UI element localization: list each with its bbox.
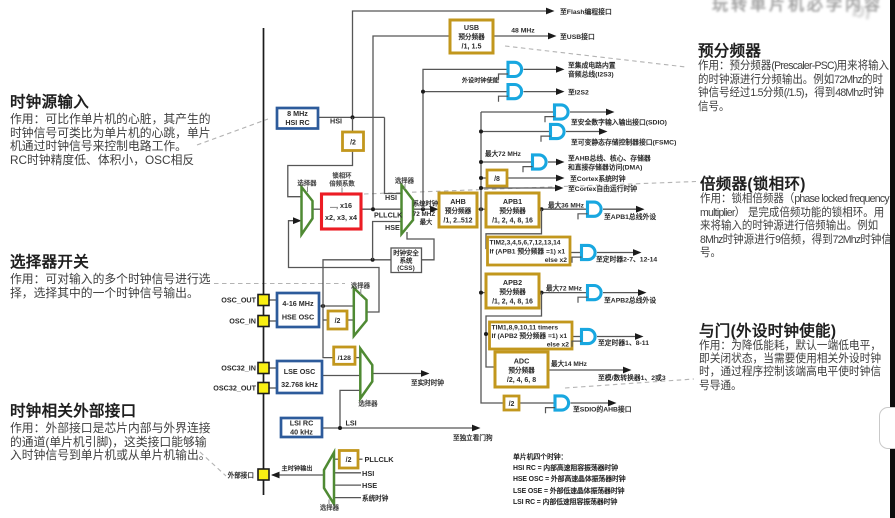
wire: system clock to AHB prescaler [413, 208, 432, 210]
wire: branch to DMA gate [481, 161, 533, 163]
wire: branch to I2S2 gate [423, 91, 508, 93]
pin OSC_OUT [258, 295, 269, 306]
wire: I2S3 gate output [524, 68, 557, 70]
svg-text:最大: 最大 [420, 217, 433, 226]
note: AND gate peripheral clock enable [699, 319, 893, 393]
AHB prescaler box [439, 193, 477, 227]
svg-text:至I2S2: 至I2S2 [568, 88, 589, 96]
wire: /2 divider to PLLXTPRE selector [347, 319, 354, 321]
TIM2-14 multiplier box [488, 237, 571, 265]
wire: TIM1 multiplier to gate [572, 336, 582, 338]
AND gate TIM1/8-11 [582, 329, 596, 343]
svg-text:If (APB2 预分频器 =1) x1: If (APB2 预分频器 =1) x1 [492, 331, 568, 340]
wire: /128 to RTC selector [355, 357, 360, 359]
wire: MCO selector output to pin [272, 474, 324, 476]
oscillator HSE OSC 4-16MHz [277, 293, 319, 327]
svg-text:至集成电路内置: 至集成电路内置 [568, 60, 616, 69]
svg-text:8 MHz: 8 MHz [287, 109, 308, 118]
svg-text:OSC_OUT: OSC_OUT [221, 296, 256, 305]
svg-text:至SDIO的AHB接口: 至SDIO的AHB接口 [573, 405, 632, 414]
wire: ADC prescaler output [548, 369, 623, 371]
wire: DMA gate output [548, 161, 556, 163]
wire: SDIO gate output [570, 111, 606, 113]
AND gate FSMC [551, 124, 565, 138]
svg-text:/128: /128 [338, 355, 351, 362]
selector: system clock mux [402, 185, 414, 234]
dashed pointer: clock-source note to HSI [197, 119, 268, 145]
svg-text:选择器: 选择器 [358, 399, 378, 408]
svg-text:LSE OSC: LSE OSC [284, 367, 316, 376]
AND gate SDIO [555, 105, 569, 119]
svg-text:/2: /2 [350, 140, 356, 147]
divider /8 (Cortex systick) [487, 170, 507, 186]
pin OSC32_OUT [258, 383, 269, 394]
svg-text:系统: 系统 [400, 256, 413, 265]
svg-text:最大36 MHz: 最大36 MHz [548, 201, 585, 210]
CSS clock security system box [391, 248, 422, 273]
svg-text:/2: /2 [509, 401, 515, 408]
pin OSC_IN [258, 316, 269, 327]
svg-text:至独立看门狗: 至独立看门狗 [453, 433, 493, 442]
legend: four clocks of the MCU [513, 452, 626, 508]
svg-text:TIM2,3,4,5,6,7,12,13,14: TIM2,3,4,5,6,7,12,13,14 [490, 240, 561, 247]
wire: OSC32_OUT pin to LSE [269, 387, 277, 389]
selector: PLL source mux [302, 187, 313, 235]
svg-text:至实时时钟: 至实时时钟 [411, 378, 444, 387]
svg-text:锁相环: 锁相环 [332, 171, 352, 180]
svg-text:PLLCLK: PLLCLK [365, 455, 395, 464]
wire: SDIO-AHB gate output [571, 402, 609, 404]
svg-text:时钟安全: 时钟安全 [393, 248, 419, 257]
oscillator HSI RC 8MHz [277, 108, 318, 129]
wire: LSE to RTC selector [322, 375, 360, 377]
wire: PLLXTPRE selector output to PLL selector [289, 221, 380, 312]
ADC prescaler box [495, 352, 548, 387]
svg-text:APB1: APB1 [503, 197, 522, 206]
svg-text:至Cortex系统时钟: 至Cortex系统时钟 [570, 174, 626, 183]
svg-text:主时钟输出: 主时钟输出 [282, 465, 313, 473]
svg-text:选择器: 选择器 [395, 176, 415, 185]
svg-text:AHB: AHB [450, 197, 466, 206]
wire: MCO /2 input [334, 458, 339, 460]
dashed pointer: AND gate to and-gate note [565, 379, 694, 388]
svg-text:至APB2总线外设: 至APB2总线外设 [604, 295, 656, 304]
wire: LSI to independent watchdog [322, 427, 472, 429]
wire: APB2 to TIM1 multiplier and ADC [486, 293, 542, 367]
oscillator LSE OSC 32.768kHz [277, 361, 322, 393]
divider /2 (HSI to PLL) [343, 132, 364, 151]
svg-text:x2, x3, x4: x2, x3, x4 [325, 213, 357, 222]
svg-text:HSI: HSI [362, 469, 374, 478]
wire: USB prescaler output to USB interface [493, 35, 548, 37]
svg-text:至定时器1、8-11: 至定时器1、8-11 [598, 338, 649, 347]
svg-text:至AHB总线、核心、存储器: 至AHB总线、核心、存储器 [568, 153, 651, 162]
pin OSC32_IN [258, 363, 269, 374]
svg-text:最大14 MHz: 最大14 MHz [551, 359, 588, 368]
svg-text:系统时钟: 系统时钟 [362, 494, 389, 503]
wire: MCO HSI input [334, 472, 361, 474]
wire: system clock riser to I2S gates [423, 69, 508, 209]
dashed pointer: external-interface note to pin label [200, 452, 226, 476]
watermark top right [712, 0, 883, 15]
wire: HSI riser to system clock selector [385, 117, 402, 193]
svg-text:HSE: HSE [385, 223, 400, 232]
wire: LSI riser to RTC selector [340, 390, 360, 428]
wire: PLL selector output to PLL [313, 208, 322, 210]
USB prescaler box [450, 20, 493, 53]
svg-text:预分频器: 预分频器 [508, 366, 535, 375]
svg-text:预分频器: 预分频器 [445, 206, 472, 215]
note: selector switch [10, 250, 211, 300]
svg-text:外部接口: 外部接口 [228, 471, 254, 480]
selector: RTC clock mux [360, 349, 372, 399]
APB1 prescaler box [486, 193, 539, 227]
dashed pointer: PLL to multiplier note [364, 182, 696, 195]
wire: branch to /8 divider [481, 177, 487, 179]
divider /2 (MCO) [339, 451, 358, 469]
wire: MCO HSE input [334, 484, 361, 486]
AND gate I2S2 [508, 85, 522, 99]
svg-text:else x2: else x2 [545, 257, 568, 264]
svg-text:至USB接口: 至USB接口 [560, 32, 595, 41]
svg-text:HSI: HSI [385, 193, 397, 202]
svg-text:/1, 1.5: /1, 1.5 [462, 42, 482, 51]
svg-text:(CSS): (CSS) [397, 265, 414, 272]
wire: OSC32_IN pin to LSE [269, 367, 277, 369]
right scrollbar dark bar [890, 0, 895, 518]
svg-text:最大72 MHz: 最大72 MHz [546, 284, 583, 293]
wire: branch to FSMC gate [481, 131, 551, 133]
svg-text:/1, 2, 4, 8, 16: /1, 2, 4, 8, 16 [492, 299, 533, 306]
wire: HSI to Flash interface [353, 11, 547, 117]
APB2 prescaler box [486, 274, 539, 308]
wire: HSI through /2 to PLL selector [352, 117, 354, 132]
divider /2 (HSE PLLXTPRE) [328, 311, 347, 329]
svg-text:/1, 2..512: /1, 2..512 [443, 218, 472, 225]
AND gate TIM2-7 [582, 245, 596, 259]
svg-text:至Flash编程接口: 至Flash编程接口 [560, 7, 612, 16]
svg-text:40 kHz: 40 kHz [290, 428, 313, 437]
wire: /2 to SDIO AHB gate [519, 402, 555, 404]
svg-text:HSI: HSI [330, 117, 342, 126]
svg-text:预分频器: 预分频器 [458, 32, 485, 41]
divider /2 (SDIO AHB) [504, 396, 519, 410]
svg-text:ADC: ADC [514, 357, 530, 366]
wire: /8 output to Cortex system timer [507, 177, 556, 179]
wire: APB1 gate output [603, 208, 636, 210]
svg-text:LSI RC: LSI RC [290, 419, 314, 428]
wire: CSS link to selector [407, 232, 434, 260]
svg-text:最大72 MHz: 最大72 MHz [485, 149, 522, 158]
chip boundary line [263, 28, 265, 495]
pin MCO external interface [258, 469, 269, 480]
TIM1-11 multiplier box [490, 322, 573, 349]
svg-text:至安全数字输入输出接口(SDIO): 至安全数字输入输出接口(SDIO) [571, 118, 667, 127]
svg-text:选择器: 选择器 [297, 178, 317, 187]
svg-text:OSC32_IN: OSC32_IN [221, 364, 256, 373]
wire: OSC_OUT pin to HSE [269, 299, 277, 301]
selector: PLLXTPRE mux [354, 288, 367, 336]
note: prescaler [698, 39, 895, 114]
wire: FSMC gate output [566, 131, 599, 133]
wire: HCLK vertical bus [481, 112, 504, 403]
svg-text:TIM1,8,9,10,11 timers: TIM1,8,9,10,11 timers [492, 324, 559, 331]
wire: TIM2-7 gate output [597, 252, 633, 254]
PLL multiplier box [322, 194, 362, 229]
svg-text:HSI RC: HSI RC [285, 118, 309, 127]
wire: APB2 output [539, 292, 588, 294]
wire: RTC selector output to RTC [372, 373, 421, 375]
svg-text:If (APB1 预分频器 =1) x1: If (APB1 预分频器 =1) x1 [490, 246, 566, 255]
svg-text:OSC32_OUT: OSC32_OUT [213, 384, 256, 393]
svg-text:4-16 MHz: 4-16 MHz [282, 299, 314, 308]
svg-text:/8: /8 [494, 176, 500, 183]
svg-text:LSI: LSI [346, 419, 357, 428]
svg-text:48 MHz: 48 MHz [511, 28, 535, 35]
divider /128 (HSE to RTC) [334, 347, 355, 364]
dashed pointer: selector note to selector label [214, 283, 345, 285]
svg-text:OSC_IN: OSC_IN [229, 317, 256, 326]
svg-text:/2: /2 [346, 457, 352, 464]
svg-text:预分频器: 预分频器 [499, 287, 526, 296]
svg-text:至可变静态存储控制器接口(FSMC): 至可变静态存储控制器接口(FSMC) [571, 137, 676, 146]
note: clock related external interface [10, 399, 211, 463]
AND gate DMA/AHB [533, 155, 547, 169]
wire: APB1 to TIM2 multiplier [486, 209, 542, 248]
svg-text:32.768 kHz: 32.768 kHz [281, 380, 318, 389]
svg-text:..., x16: ..., x16 [330, 201, 352, 210]
svg-text:72 MHZ: 72 MHZ [413, 211, 436, 218]
wire: HSI output from HSI RC [318, 116, 385, 118]
wire: branch to APB2 prescaler [481, 292, 486, 294]
wire: I2S2 gate output [524, 91, 557, 93]
wire: APB1 output [539, 208, 588, 210]
svg-text:APB2: APB2 [503, 278, 522, 287]
svg-text:/1, 2, 4, 8, 16: /1, 2, 4, 8, 16 [492, 218, 533, 225]
wire: TIM2 multiplier to gate [570, 252, 582, 254]
wire: OSC_IN pin to HSE [269, 320, 277, 322]
svg-text:音频总线(I2S3): 音频总线(I2S3) [568, 69, 614, 78]
svg-text:/2, 4, 6, 8: /2, 4, 6, 8 [507, 377, 536, 384]
svg-text:和直接存储器访问(DMA): 和直接存储器访问(DMA) [568, 162, 642, 171]
wire: HSE output [319, 305, 354, 307]
oscillator LSI RC 40kHz [281, 418, 322, 437]
wire: APB2 gate output [603, 292, 638, 294]
svg-text:else x2: else x2 [547, 342, 570, 349]
wire: MCO system clock input [334, 497, 361, 499]
svg-text:选择器: 选择器 [320, 503, 340, 512]
wire: HSE branch to system clock selector [373, 222, 402, 260]
svg-text:系统时钟: 系统时钟 [413, 199, 439, 208]
svg-text:至APB1总线外设: 至APB1总线外设 [604, 212, 656, 221]
svg-text:至Cortex自由运行时钟: 至Cortex自由运行时钟 [568, 184, 637, 193]
wire: PLLCLK riser to USB prescaler [373, 36, 450, 209]
svg-text:USB: USB [464, 23, 479, 32]
selector: MCO mux (mirrored) [324, 453, 334, 505]
wire: HSE down to /128 [323, 306, 334, 358]
AND gate SDIO-AHB [555, 396, 569, 410]
AND gate I2S3 [508, 62, 522, 76]
note: multiplier PLL [700, 172, 895, 261]
svg-text:HSE: HSE [362, 481, 377, 490]
AND gate APB2 peripherals [588, 286, 602, 300]
wire: HSE riser up [323, 260, 391, 306]
svg-text:至模/数转换器1、2或3: 至模/数转换器1、2或3 [598, 373, 666, 382]
svg-text:预分频器: 预分频器 [499, 206, 526, 215]
floating side button [879, 407, 895, 449]
note: clock source input [10, 90, 211, 168]
svg-text:倍频系数: 倍频系数 [329, 179, 355, 188]
AND gate APB1 peripherals [588, 202, 602, 216]
svg-text:HSE OSC: HSE OSC [282, 313, 314, 322]
svg-text:/2: /2 [335, 318, 341, 325]
wire: PLLCLK from PLL to system clock selector [361, 208, 402, 210]
svg-text:PLLCLK: PLLCLK [374, 211, 403, 220]
wire: AHB prescaler to APB1 prescaler [477, 208, 486, 210]
wire: branch to Cortex free-running clock [481, 187, 555, 189]
wire: HSE to /2 divider [323, 319, 328, 321]
wire: TIM1 gate output [597, 336, 635, 338]
dashed pointer: USB prescaler to prescaler note [505, 46, 686, 67]
svg-text:选择器: 选择器 [351, 281, 371, 290]
svg-text:至定时器2-7、12-14: 至定时器2-7、12-14 [596, 255, 657, 264]
svg-text:外设时钟使能: 外设时钟使能 [462, 77, 500, 85]
